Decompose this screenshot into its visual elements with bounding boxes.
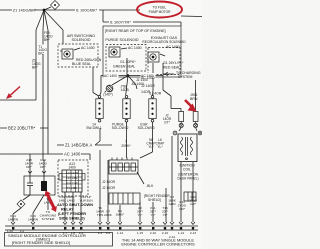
svg-text:1-14: 1-14 bbox=[117, 231, 123, 235]
svg-text:DK*: DK* bbox=[26, 165, 32, 169]
svg-text:2-6: 2-6 bbox=[106, 231, 111, 235]
svg-text:YL*: YL* bbox=[138, 213, 144, 217]
svg-text:RECIRCULATION SOLENOID: RECIRCULATION SOLENOID bbox=[142, 40, 186, 44]
svg-text:-BLK: -BLK bbox=[146, 184, 154, 188]
svg-text:BK*: BK* bbox=[38, 51, 44, 55]
svg-text:AC 1400: AC 1400 bbox=[141, 76, 155, 80]
svg-text:YL*: YL* bbox=[148, 145, 154, 149]
svg-text:YL*: YL* bbox=[157, 145, 163, 149]
svg-text:20DK: 20DK bbox=[104, 213, 113, 217]
svg-text:BK*: BK* bbox=[32, 66, 38, 70]
svg-text:SYSTEM: SYSTEM bbox=[42, 217, 55, 221]
svg-text:GR*: GR* bbox=[179, 207, 186, 211]
svg-text:2-16: 2-16 bbox=[162, 231, 168, 235]
svg-text:BE2 20BL/TR*: BE2 20BL/TR* bbox=[8, 126, 36, 131]
svg-text:Z1 14BG/BK A: Z1 14BG/BK A bbox=[65, 143, 92, 148]
svg-text:ENGINE CONTROLLER CONNECTORS: ENGINE CONTROLLER CONNECTORS bbox=[121, 242, 195, 247]
svg-text:SOLENOID: SOLENOID bbox=[71, 38, 90, 42]
svg-text:Z1 14DG/BK*: Z1 14DG/BK* bbox=[13, 8, 37, 13]
svg-text:I1 100C/BK*: I1 100C/BK* bbox=[76, 8, 98, 13]
svg-text:RED SEAL: RED SEAL bbox=[163, 66, 180, 70]
svg-text:G1 20PK*: G1 20PK* bbox=[120, 60, 136, 64]
svg-text:AC 1400: AC 1400 bbox=[81, 46, 95, 50]
svg-text:YL*: YL* bbox=[163, 213, 169, 217]
svg-text:GREEN SEAL: GREEN SEAL bbox=[113, 65, 135, 69]
svg-text:YLW BLN: YLW BLN bbox=[79, 199, 92, 203]
svg-text:14DB: 14DB bbox=[121, 88, 130, 92]
svg-text:18BK*: 18BK* bbox=[116, 213, 126, 217]
svg-text:BK*: BK* bbox=[44, 38, 50, 42]
svg-text:YL*: YL* bbox=[151, 213, 157, 217]
svg-text:GT*: GT* bbox=[164, 121, 170, 125]
svg-text:I1 100Y/TR*: I1 100Y/TR* bbox=[110, 20, 132, 25]
svg-text:14BRN: 14BRN bbox=[8, 218, 18, 222]
svg-text:BLUE SEAL: BLUE SEAL bbox=[72, 62, 91, 66]
svg-text:J2 14OR: J2 14OR bbox=[102, 180, 116, 184]
svg-text:[RIGHT FENDER SIDE SHIELD]: [RIGHT FENDER SIDE SHIELD] bbox=[12, 240, 70, 245]
svg-text:PURGE SOLENOID: PURGE SOLENOID bbox=[105, 38, 139, 42]
svg-text:SOL-DWI 2: SOL-DWI 2 bbox=[112, 126, 129, 130]
svg-text:K19 14BL: K19 14BL bbox=[66, 176, 78, 180]
svg-text:SYSTEM: SYSTEM bbox=[178, 75, 192, 79]
svg-text:14OR: 14OR bbox=[141, 90, 151, 94]
svg-text:SIDE SHIELD): SIDE SHIELD) bbox=[59, 216, 85, 221]
svg-text:COIL: COIL bbox=[183, 167, 191, 171]
svg-text:T1 14BK: T1 14BK bbox=[67, 186, 78, 190]
svg-text:1400: 1400 bbox=[68, 166, 76, 170]
svg-text:AC 1400: AC 1400 bbox=[166, 45, 180, 49]
svg-text:AC 1400: AC 1400 bbox=[104, 74, 117, 78]
svg-text:2-10: 2-10 bbox=[150, 231, 156, 235]
svg-text:14BL LANG: 14BL LANG bbox=[59, 199, 76, 203]
svg-text:SOL-DWI 3: SOL-DWI 3 bbox=[138, 126, 155, 130]
svg-text:AC 1400: AC 1400 bbox=[128, 46, 142, 50]
svg-text:J2 14OR: J2 14OR bbox=[141, 84, 155, 88]
svg-text:[RIGHT REAR OF TOP OF ENGINE]: [RIGHT REAR OF TOP OF ENGINE] bbox=[105, 29, 166, 33]
svg-text:SW-DWI 1: SW-DWI 1 bbox=[86, 126, 102, 130]
svg-text:DK*: DK* bbox=[40, 165, 46, 169]
svg-text:(14D*): (14D*) bbox=[103, 93, 113, 97]
svg-text:K13 YLW: K13 YLW bbox=[66, 181, 78, 185]
svg-text:GR*: GR* bbox=[190, 202, 197, 206]
svg-text:20PK*: 20PK* bbox=[121, 144, 131, 148]
svg-text:1-2: 1-2 bbox=[98, 231, 103, 235]
svg-text:1-14: 1-14 bbox=[178, 231, 184, 235]
svg-text:SHIELD]: SHIELD] bbox=[148, 198, 161, 202]
svg-text:PUMP MOTOR: PUMP MOTOR bbox=[149, 10, 172, 14]
svg-text:TRS: TRS bbox=[97, 213, 103, 217]
svg-text:A13 14OR: A13 14OR bbox=[66, 171, 79, 175]
svg-text:DASH PANEL): DASH PANEL) bbox=[177, 176, 198, 180]
svg-text:GRN: GRN bbox=[169, 202, 176, 206]
svg-text:BRN: BRN bbox=[190, 97, 198, 101]
svg-text:AC 1400: AC 1400 bbox=[64, 152, 81, 157]
svg-text:1-15: 1-15 bbox=[137, 231, 143, 235]
svg-text:G1 26YL/YL*: G1 26YL/YL* bbox=[163, 61, 184, 65]
svg-text:I1 14OR: I1 14OR bbox=[149, 92, 162, 96]
svg-text:14BRN: 14BRN bbox=[28, 218, 38, 222]
svg-text:2-13: 2-13 bbox=[190, 231, 196, 235]
svg-text:J2 14OR: J2 14OR bbox=[102, 186, 116, 190]
